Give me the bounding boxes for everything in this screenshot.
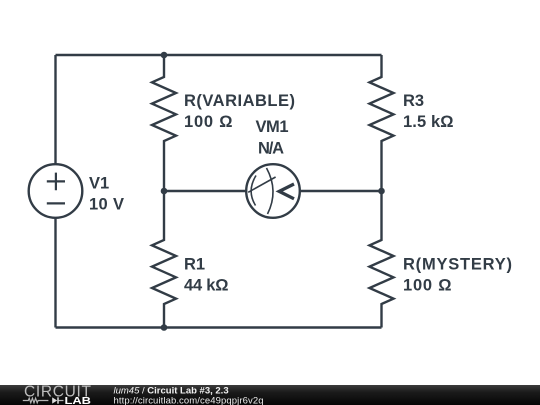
svg-text:VM1: VM1: [256, 118, 289, 136]
node dot top (164,55): [161, 52, 168, 59]
svg-text:R(MYSTERY): R(MYSTERY): [403, 255, 512, 273]
resistor R1: [152, 191, 176, 328]
svg-text:R3: R3: [403, 92, 424, 110]
svg-text:1.5 kΩ: 1.5 kΩ: [403, 113, 454, 131]
node dot bottom (164,327.5): [161, 324, 168, 331]
svg-text:10 V: 10 V: [89, 195, 124, 213]
voltmeter VM1 circle: [246, 164, 300, 218]
voltmeter VM1 gauge arcs: [248, 168, 275, 214]
wire left rail top (to V1): [54, 55, 56, 164]
wire bottom rail: [56, 326, 382, 328]
svg-text:http://circuitlab.com/ce49pqpj: http://circuitlab.com/ce49pqpjr6v2q: [114, 395, 264, 405]
voltage source V1 circle: [29, 164, 83, 218]
svg-text:LAB: LAB: [65, 395, 92, 405]
svg-text:100 Ω: 100 Ω: [184, 113, 233, 131]
svg-text:R1: R1: [184, 255, 205, 273]
svg-text:N/A: N/A: [258, 140, 284, 158]
wire middle row left (node to VM1): [164, 190, 246, 192]
svg-text:R(VARIABLE): R(VARIABLE): [184, 92, 295, 110]
resistor R3: [370, 55, 394, 191]
svg-text:100 Ω: 100 Ω: [403, 277, 452, 295]
svg-text:V1: V1: [89, 174, 109, 192]
V1 plus sign: [47, 173, 65, 204]
logo diode triangle: [52, 397, 57, 403]
node dot middle-left (164,191): [161, 188, 168, 195]
svg-text:44 kΩ: 44 kΩ: [184, 277, 229, 295]
node dot middle-right (381.5,191): [378, 188, 385, 195]
resistor R(VARIABLE): [152, 55, 176, 191]
logo resistor squiggle + diode: [23, 398, 64, 403]
wire middle row right (VM1 to right rail): [300, 190, 382, 192]
V1 minus sign: [47, 202, 65, 204]
voltmeter VM1 needle: [248, 177, 275, 192]
logo diode bar: [57, 397, 59, 403]
resistor R(MYSTERY): [370, 191, 394, 328]
voltmeter VM1 V glyph (rotated): [279, 184, 294, 199]
wire left rail bottom (from V1): [54, 218, 56, 328]
wire top rail: [56, 54, 382, 56]
